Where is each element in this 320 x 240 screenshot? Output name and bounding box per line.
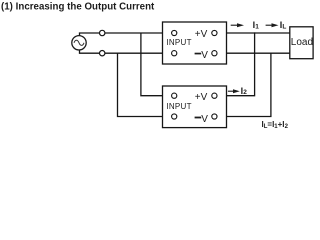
ac source V1: [72, 36, 86, 50]
U1 pin: +V output: [212, 30, 217, 35]
wire: bottom row from AC source to INPUT 1 lower-left terminal: [80, 50, 173, 53]
svg-text:INPUT: INPUT: [166, 38, 192, 47]
U2 pin: input + (upper-left terminal): [172, 93, 177, 98]
svg-text:(1) Increasing the Output Curr: (1) Increasing the Output Current: [1, 1, 155, 12]
label IL=I1+I2: [262, 120, 289, 130]
power supply U2 (lower INPUT box): [163, 86, 227, 128]
wire: -V return of INPUT 2 up to return row: [214, 53, 271, 117]
svg-text:V: V: [201, 50, 208, 61]
U2 pin: +V output: [212, 93, 217, 98]
svg-text:INPUT: INPUT: [166, 102, 192, 111]
current arrow IL: [266, 23, 279, 27]
load RL: [290, 27, 313, 59]
svg-text:Load: Load: [291, 37, 313, 48]
wire: top row from AC source to INPUT 1 left terminal: [80, 33, 173, 36]
svg-text:+I: +I: [278, 120, 285, 129]
U2 pin: -V output: [212, 114, 217, 119]
svg-text:L: L: [282, 23, 286, 30]
U1 pin: input + (upper-left terminal): [172, 30, 177, 35]
wire: branch A vertical from bottom row down to row4 then right to INPUT 2: [118, 53, 173, 116]
label I1: [253, 20, 260, 30]
label IL: [280, 20, 287, 30]
wire: -V return of INPUT 1 to Load lower-left: [214, 52, 289, 54]
wire: +V output of INPUT 1 to Load (carries I1 then IL): [214, 32, 289, 34]
wire: +V output of INPUT 2 up to top row (carries I2): [214, 32, 254, 95]
svg-text:V: V: [201, 114, 208, 125]
U1 pin: input - (lower-left terminal): [172, 51, 177, 56]
U1 pin: -V output: [212, 51, 217, 56]
svg-text:+V: +V: [195, 92, 208, 103]
svg-text:2: 2: [243, 89, 247, 96]
svg-text:1: 1: [255, 23, 259, 30]
terminal plug bottom: [100, 51, 105, 56]
svg-text:=I: =I: [267, 120, 274, 129]
wire: branch B vertical from top row down to row3 then right to INPUT 2: [141, 33, 172, 96]
current arrow I2: [228, 89, 240, 93]
power supply U1 (upper INPUT box): [163, 22, 227, 64]
label I2: [241, 86, 248, 96]
terminal plug top: [100, 30, 105, 35]
current arrow I1: [231, 23, 244, 27]
U2 pin: input - (lower-left terminal): [172, 114, 177, 119]
svg-text:2: 2: [285, 124, 289, 130]
svg-text:+V: +V: [195, 29, 208, 40]
